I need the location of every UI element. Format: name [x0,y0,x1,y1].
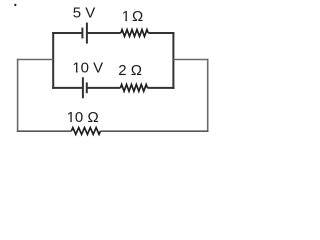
label 10 V [72,60,103,77]
svg-text:Ω: Ω [132,8,143,25]
wire: bottom branch right segment [101,130,209,132]
wire: outer left vertical [17,59,19,132]
wire: top branch left segment [52,32,82,34]
wire: middle branch right segment [147,87,174,89]
resistor R1 1 ohm zigzag [121,30,148,37]
wire: left connector from outer loop to inner left node [17,59,53,61]
svg-text:10 V: 10 V [72,60,103,77]
svg-text:10 Ω: 10 Ω [67,109,99,126]
battery V2 (10 V): long positive plate [82,77,84,98]
wire: middle branch between battery and resistor [87,87,121,89]
svg-text:2 Ω: 2 Ω [118,62,142,79]
battery V2 (10 V): short negative plate [86,82,88,93]
wire: top branch right segment [148,32,174,34]
wire: middle branch left segment [52,87,83,89]
resistor R2 2 ohm zigzag [120,85,147,92]
wire: bottom branch left segment [17,130,72,132]
wire: inner right vertical [172,32,174,89]
svg-text:5 V: 5 V [73,5,96,22]
label 10 ohm [67,109,99,126]
wire: right connector from inner right node to outer loop [173,59,208,61]
svg-text:1: 1 [122,8,130,25]
resistor R3 10 ohm zigzag [71,128,100,135]
battery V1 (5 V): short negative plate [81,28,83,39]
stray period dot [14,4,16,6]
wire: top branch between battery and resistor [87,32,121,34]
wire: outer right vertical [207,59,209,132]
wire: inner left vertical [52,32,54,89]
battery V1 (5 V): long positive plate [86,23,88,44]
label 1 ohm [122,8,144,25]
